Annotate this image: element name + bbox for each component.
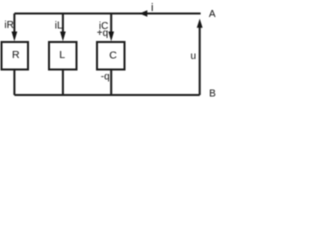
svg-text:A: A <box>209 9 216 20</box>
svg-text:i: i <box>151 2 153 14</box>
svg-text:L: L <box>59 49 65 61</box>
svg-text:R: R <box>12 49 20 61</box>
svg-text:+q: +q <box>97 28 108 39</box>
svg-text:B: B <box>209 88 216 99</box>
svg-text:iL: iL <box>55 21 63 32</box>
svg-text:-q: -q <box>101 71 110 82</box>
svg-text:u: u <box>191 51 197 62</box>
svg-text:C: C <box>109 49 117 61</box>
svg-text:iR: iR <box>4 20 13 31</box>
